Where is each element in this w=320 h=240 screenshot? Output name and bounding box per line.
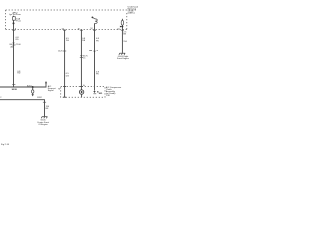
wire3 gauge label upper — [82, 38, 86, 42]
ground G103 — [119, 53, 125, 55]
circuit breaker curl — [92, 17, 97, 23]
splice dot on feed wire — [32, 86, 34, 88]
wire5 (fusible link to ground) — [121, 30, 123, 53]
wire2 foot tick at compressor case — [63, 96, 66, 98]
svg-text:Of Engine: Of Engine — [38, 124, 48, 126]
horizontal wire (lower) to ground — [0, 100, 45, 117]
fuse block label text (top right) — [128, 5, 139, 14]
circuit breaker contact dot — [92, 17, 94, 19]
wire3 inline connector — [80, 55, 82, 57]
feed wire destination label — [48, 85, 56, 92]
wire4 (breaker output) — [94, 30, 96, 91]
wire3 (to clutch coil) — [80, 30, 82, 90]
svg-text:S/D: S/D — [99, 93, 103, 95]
underhood fuse block (dashed box) — [6, 10, 137, 30]
wire2 gauge label upper — [66, 38, 70, 42]
compressor pin tick wire2 — [63, 86, 66, 88]
svg-text:RD: RD — [17, 72, 21, 74]
wire3 connector label — [83, 55, 89, 59]
clutch coil stub to case — [81, 94, 83, 97]
svg-text:S238: S238 — [12, 89, 18, 91]
wire1 mid label — [17, 71, 21, 75]
wire1 (left, circuit 5040) upper — [13, 30, 15, 87]
wire from breaker down inside box — [94, 23, 96, 29]
svg-text:(UBEC): (UBEC) — [128, 13, 135, 15]
horizontal feed wire (upper) — [0, 83, 46, 87]
fuse F1 label — [9, 11, 21, 16]
svg-text:DG: DG — [66, 75, 70, 77]
pin tick wire1 at block exit — [12, 29, 15, 31]
compressor pin tick wire3 — [80, 86, 83, 88]
svg-text:RD: RD — [16, 39, 20, 41]
compressor label text (right) — [106, 86, 122, 97]
branch pass-through oval — [32, 90, 34, 93]
clutch coil — [79, 90, 83, 94]
wire4 end arrow inside box — [93, 91, 95, 93]
A/C compressor (dashed box) — [61, 87, 105, 98]
connector tick on ground drop — [43, 101, 46, 103]
ground G105 label — [37, 120, 49, 126]
branch wire from splice — [32, 87, 34, 90]
pin tick wire2 — [63, 29, 66, 31]
up arrow at end of feed wire — [45, 81, 47, 83]
wire4 upper gauge label — [96, 38, 100, 42]
junction dot + left arrow under fusible link — [122, 26, 124, 28]
pin tick wire3 — [80, 29, 83, 31]
ground G103 label — [117, 55, 130, 60]
fusible link (oval) — [121, 20, 123, 25]
branch down arrow — [32, 94, 34, 96]
inline connector on wire1 — [12, 43, 14, 45]
wire4 mid gauge label — [96, 71, 100, 75]
ground G105 — [41, 117, 47, 119]
pin tick wire4 — [93, 29, 96, 31]
svg-text:Signal: Signal — [48, 90, 54, 92]
wire2 (to relay coil) — [64, 30, 66, 98]
fuse F1 value label — [16, 18, 21, 23]
svg-text:Fig 2-14: Fig 2-14 — [1, 144, 10, 146]
svg-text:Front Engine: Front Engine — [117, 57, 130, 60]
junction dot below fuse F1 — [13, 22, 15, 24]
fuse F1 — [13, 16, 15, 30]
wire2 connector tick — [63, 50, 66, 52]
svg-text:Ign Sw Fuse: Ign Sw Fuse — [9, 14, 21, 16]
svg-text:DG: DG — [66, 40, 70, 42]
wire1 gauge/color label — [16, 37, 20, 41]
wire1 end tick — [12, 84, 15, 86]
ground drop wire label — [46, 106, 50, 110]
wire2 gauge/color label — [66, 73, 70, 77]
wire5 pin text — [123, 31, 127, 35]
wire4 inline connector — [89, 50, 92, 52]
